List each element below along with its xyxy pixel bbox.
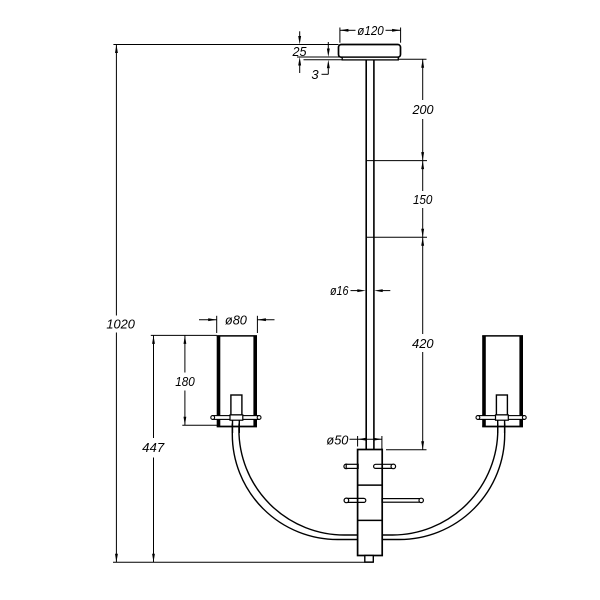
svg-text:ø80: ø80	[225, 313, 248, 328]
svg-text:ø16: ø16	[330, 283, 349, 298]
svg-text:25: 25	[292, 44, 308, 59]
svg-text:180: 180	[175, 374, 195, 389]
svg-text:ø50: ø50	[326, 433, 349, 448]
svg-text:447: 447	[142, 440, 165, 455]
svg-text:ø120: ø120	[357, 23, 384, 38]
svg-text:3: 3	[311, 67, 319, 82]
svg-text:200: 200	[412, 102, 435, 117]
svg-text:420: 420	[412, 336, 434, 351]
svg-text:1020: 1020	[106, 316, 135, 331]
svg-text:150: 150	[413, 192, 433, 207]
